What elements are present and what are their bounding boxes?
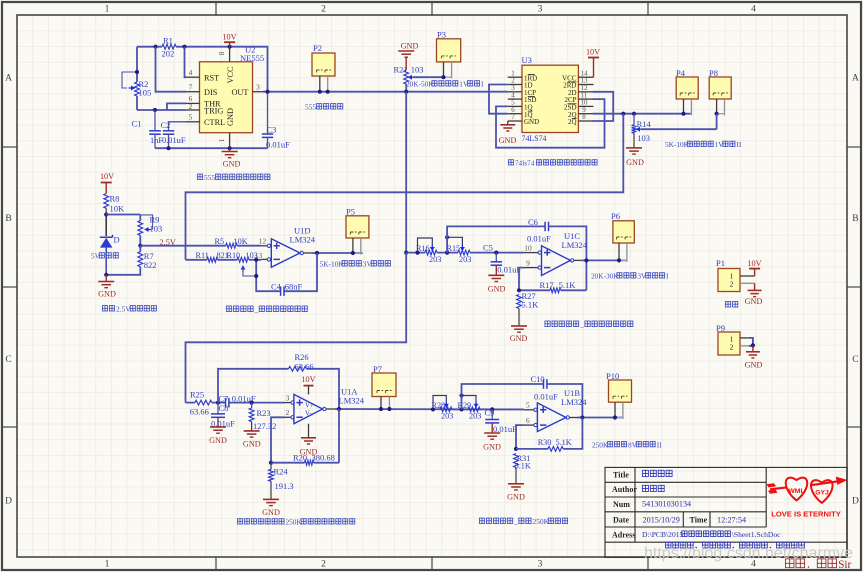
junction VCC pin8 [228,45,232,49]
svg-text:P2: P2 [313,43,322,53]
capacitor C4 integrator feedback [284,253,317,291]
wire pin9 to R17 [519,268,524,291]
svg-text:1: 1 [105,5,110,15]
U1B pin 5 [524,409,534,411]
caption integrator [226,306,231,312]
svg-text:191.3: 191.3 [275,481,294,491]
svg-text:LM324: LM324 [339,396,365,406]
svg-text:103: 103 [411,64,424,74]
resistor R11 [207,257,218,262]
wire R26-R20 vertical [338,409,340,463]
svg-text:GND: GND [507,493,525,502]
ground (C9) [484,432,500,434]
svg-text:GND: GND [209,436,227,445]
junction OUT/R21 [404,90,408,94]
svg-text:0.01uF: 0.01uF [497,265,521,275]
svg-text:203: 203 [459,255,471,264]
wire top rail right (VCC node) [176,47,268,92]
svg-text:_: _ [579,320,584,329]
junction R25/C7/C8/R26 [216,401,220,405]
svg-text:D:\PCB\2015: D:\PCB\2015 [642,530,684,539]
svg-text:II: II [736,140,741,149]
svg-text:203: 203 [469,412,481,421]
U2 pin 7 DIS [186,91,200,93]
svg-text:203: 203 [441,412,453,421]
svg-text:0.01uF: 0.01uF [266,140,290,150]
svg-text:203: 203 [429,255,441,264]
svg-text:Title: Title [613,471,629,480]
svg-text:U3: U3 [522,55,532,65]
U1B output pin 7 [566,416,569,419]
svg-text:LM324: LM324 [290,235,316,245]
resistor R17 [519,289,550,291]
timer U2 body [200,62,253,133]
ground (555) [229,148,231,151]
potentiometer R10 [237,257,249,262]
svg-text:250K: 250K [533,517,550,526]
wire inverting input row [186,259,208,261]
capacitor C8 [217,403,219,414]
op-amp U1A [294,394,323,423]
U3 pin 11 2CP [578,98,593,100]
svg-text:3: 3 [538,560,543,570]
svg-text:202: 202 [162,49,175,59]
ground (R31) [508,483,524,485]
title block table [605,467,847,557]
svg-text:2: 2 [189,102,193,111]
svg-text:V-: V- [305,411,312,418]
svg-text:C2: C2 [161,120,171,130]
svg-text:D: D [114,235,120,245]
ground (C5) [488,274,504,276]
U1A pin 2 [285,416,292,418]
svg-text:10V: 10V [586,48,600,57]
power 10V (U1A V+) [308,386,310,395]
wire 555 bottom rail [155,147,268,149]
svg-text:10: 10 [524,243,532,252]
capacitor C7 [225,398,227,408]
svg-text:GYJ: GYJ [815,490,829,497]
flip-flop U3 body [522,65,578,132]
resistor R1 [162,44,176,49]
svg-text:A: A [852,74,859,84]
svg-text:7: 7 [511,113,515,121]
svg-text:Author: Author [612,485,637,494]
junction output/C10/R30 [580,415,584,419]
svg-text:10K: 10K [110,204,126,214]
svg-text:WML: WML [788,488,804,495]
svg-text:8: 8 [218,51,226,55]
svg-text:C3: C3 [267,125,277,135]
potentiometer R21 [404,70,409,84]
svg-text:2: 2 [321,5,326,15]
svg-text:Date: Date [613,515,629,524]
U2 pin 8 VCC [229,47,231,62]
caption LP filter [545,321,550,327]
svg-text:D: D [5,497,12,507]
wire 555 OUT row [263,91,508,93]
svg-text:541301030134: 541301030134 [642,500,691,509]
svg-text:VCC: VCC [226,66,235,84]
svg-text:GND: GND [262,508,280,517]
svg-text:0.01uF: 0.01uF [527,234,551,244]
junction R23 tap [250,401,254,405]
resistor R25 [195,400,212,405]
junction C6 tap [445,251,449,255]
U3 pin 3 1CP [508,91,522,93]
wire bandpass input row [186,402,195,404]
svg-text:P3: P3 [437,30,446,40]
potentiometer R16 [425,250,437,255]
svg-text:RST: RST [204,73,219,82]
credit text [785,559,794,568]
svg-text:R17: R17 [540,280,554,290]
potentiometer R14 [633,114,635,125]
svg-text:1: 1 [218,138,226,142]
svg-text:GND: GND [745,297,763,306]
junction output/C6/R17 [584,258,588,262]
svg-text:2: 2 [730,342,734,351]
svg-text:822: 822 [144,260,157,270]
wire 2D-2Qbar wrap [593,92,614,121]
wire U1B input row [452,408,468,410]
wire square to bandpass [186,253,407,403]
svg-text:LM324: LM324 [561,397,587,407]
junction R20/R24 [269,461,273,465]
svg-text:GND: GND [510,334,528,343]
ground (R23) [244,430,260,432]
svg-text:GND: GND [524,118,539,126]
title block note [665,542,671,548]
svg-text:20K-50K: 20K-50K [406,80,434,89]
svg-text:2: 2 [286,408,290,417]
svg-text:R1: R1 [163,36,173,46]
capacitor C9 [491,409,493,419]
ground (P1) [754,283,756,290]
junction output/C4 [315,251,319,255]
wire RST vertical [185,47,187,77]
junction OUT/C3 [265,90,269,94]
svg-text:Num: Num [613,500,630,509]
svg-text:R28: R28 [432,401,446,410]
svg-text:GND: GND [483,443,501,452]
svg-text:C: C [852,355,858,365]
op-amp U1B [537,403,566,432]
svg-text:LM324: LM324 [562,240,588,250]
svg-text:6: 6 [526,416,530,425]
svg-text:Time: Time [690,515,708,524]
svg-text:GND: GND [499,136,517,145]
U3 pin 6 1Q [508,113,522,115]
svg-text:105: 105 [139,88,152,98]
potentiometer R9 [139,215,141,221]
svg-text:C4: C4 [271,281,282,291]
svg-text:\Sheet1.SchDoc: \Sheet1.SchDoc [732,530,781,539]
svg-text:GND: GND [626,158,644,167]
svg-text:A: A [5,74,12,84]
wire 2Q output row [593,113,691,115]
svg-text:R10: R10 [227,251,241,260]
U3 pin 7 GND [508,120,522,122]
svg-text:5K-10K: 5K-10K [320,260,345,269]
resistor R31 [514,454,519,468]
svg-text:NE555: NE555 [240,53,264,63]
svg-text:3: 3 [538,5,543,15]
svg-text:74ls74: 74ls74 [515,159,535,168]
caption 555 oscillator [197,174,202,179]
U3 pin 1 1RD [508,76,522,78]
resistor R30 [516,448,548,450]
svg-text:1: 1 [105,560,110,570]
logo heart GYJ [811,480,832,503]
svg-text:68nF: 68nF [285,281,303,291]
svg-text:R23: R23 [257,408,271,418]
U2 pin 2 TRIG [186,109,200,111]
svg-text:R5: R5 [215,237,225,246]
svg-text:12: 12 [259,237,267,246]
svg-text:R16: R16 [416,244,430,253]
svg-text:20K-30K: 20K-30K [591,272,619,281]
U3 pin 10 2SD [578,105,593,107]
potentiometer R29 [468,407,480,412]
diode D zener [100,235,113,238]
wire divided-output feedback to integrator [186,114,624,260]
ground (C8) [210,426,226,428]
svg-text:3: 3 [286,393,290,402]
svg-text:10V: 10V [747,259,761,268]
svg-text:5K-10K: 5K-10K [665,140,690,149]
junction diode bottom [104,273,108,277]
svg-text:GND: GND [488,285,506,294]
svg-text:0.01uF: 0.01uF [534,392,558,402]
ground (R27) [511,325,527,327]
wire DIS vertical [156,47,187,92]
caption 2.5V reference [102,306,107,311]
svg-text:5.1K: 5.1K [559,280,577,290]
resistor R8 [104,194,109,209]
svg-text:C8: C8 [219,403,229,413]
svg-text:5.1K: 5.1K [515,462,531,471]
logo arrow head [810,481,838,485]
wire THR step [167,103,186,110]
svg-text:P6: P6 [611,211,620,221]
junction 2.5V [138,244,142,248]
svg-text:OUT: OUT [231,88,248,97]
svg-text:P5: P5 [346,207,355,217]
svg-text:5.1K: 5.1K [556,438,572,447]
junction C9 tap [490,407,494,411]
U2 pin 1 GND [229,133,231,149]
capacitor C6 feedback [447,226,545,252]
svg-text:12:27:54: 12:27:54 [717,515,746,524]
junction on DIS rail [153,45,157,49]
wire pin2 down [271,417,285,462]
svg-text:5: 5 [189,113,193,122]
junction square to LP [404,251,408,255]
svg-text:63.66: 63.66 [190,407,209,417]
wire TRIG row [137,109,186,111]
resistor R24 [270,463,272,470]
U3 pin 14 VCC [578,76,593,78]
svg-text:103: 103 [637,133,650,143]
svg-text:555: 555 [305,103,316,112]
svg-text:C1: C1 [132,119,142,129]
svg-text:2: 2 [321,560,326,570]
ground (R14) [626,147,642,149]
wire LP input row [406,252,425,254]
svg-text:10V: 10V [301,375,315,384]
svg-text:380.68: 380.68 [312,452,335,462]
resistor R23 [251,403,253,408]
U2 pin 3 OUT [253,91,264,93]
junction OUT vertical to filters [405,92,407,253]
svg-text:P1: P1 [716,258,725,268]
wire top rail left (DIS node) [137,46,162,48]
svg-text:Sir: Sir [838,559,851,571]
svg-text:R24: R24 [274,467,289,477]
U1D pin 13 [261,258,267,260]
junction R30/R31 [514,447,518,451]
svg-text:5.1K: 5.1K [522,300,540,310]
svg-text:4: 4 [189,69,193,77]
junction C10 tap [459,407,463,411]
svg-text:10V: 10V [100,172,114,181]
svg-text:R21: R21 [394,64,408,74]
svg-text:5: 5 [526,401,530,410]
U3 pin 13 2RD [578,84,593,86]
U3 pin 4 1SD [508,98,522,100]
resistor R5 [226,243,237,248]
svg-text:2015/10/29: 2015/10/29 [643,515,680,524]
op-amp U1C [542,246,571,276]
caption bandpass [237,519,242,524]
svg-text:74LS74: 74LS74 [522,134,547,143]
U1A pin 3 [285,402,292,404]
svg-text:R11: R11 [196,251,209,260]
svg-text:DIS: DIS [204,88,218,97]
U2 pin 6 THR [186,102,200,104]
svg-text:2Q: 2Q [568,118,577,126]
svg-text:R29: R29 [458,401,472,410]
svg-text:R14: R14 [637,119,652,129]
svg-text:C9: C9 [485,408,495,418]
svg-text:R30: R30 [538,438,552,447]
logo heart WML [786,478,807,501]
capacitor C10 feedback [462,384,544,409]
U3 pin 9 2Q [578,113,593,115]
U2 pin 4 RST [186,76,200,78]
junction 2Q feedback [621,112,625,116]
U1D output pin 14 [300,251,303,254]
junction output/R26/R20 [337,407,341,411]
U3 pin 12 2D [578,91,593,93]
svg-text:Adress: Adress [612,531,635,540]
wire 1D-1Qbar wrap [489,85,508,114]
svg-text:9: 9 [526,258,530,267]
svg-text:C5: C5 [483,243,493,253]
svg-text:R20: R20 [293,452,307,462]
resistor R27 [517,295,522,309]
potentiometer R15 [458,250,470,255]
svg-text:GND: GND [243,440,261,449]
svg-text:250K: 250K [592,440,609,449]
ground (R24) [263,498,279,500]
svg-text:250K: 250K [286,518,303,527]
junction RST branch [182,45,186,49]
potentiometer R28 [440,407,452,412]
svg-text:3: 3 [256,83,260,92]
svg-text:7: 7 [189,84,193,92]
svg-text:C6: C6 [528,217,538,227]
junction C5 tap [494,251,498,255]
resistor R20 feedback [271,462,305,464]
ground (P9) [752,346,754,352]
junction C1 top [153,108,157,112]
capacitor C3 [267,92,269,134]
svg-text:B: B [5,214,11,224]
svg-text:103: 103 [150,224,163,234]
svg-text:LOVE IS ETERNITY: LOVE IS ETERNITY [771,510,841,519]
svg-text:127.32: 127.32 [253,421,276,431]
svg-text:GND: GND [223,160,241,169]
U3 pin 8 2Q [578,120,593,122]
svg-text:555: 555 [204,173,215,182]
svg-text:II: II [657,440,662,449]
svg-text:10K: 10K [234,237,248,246]
svg-text:CTRL: CTRL [204,118,225,127]
wire ref node [105,215,107,237]
ground (U1A V-) [308,424,310,438]
U1C pin 10 [524,252,538,254]
svg-text:C: C [5,355,11,365]
svg-text:GND: GND [401,42,419,51]
svg-text:C10: C10 [531,374,545,384]
svg-text:TRIG: TRIG [204,107,223,116]
U1D pin 12 [261,245,267,247]
svg-text:GND: GND [226,108,235,126]
wire 1Q-2CP wrap [496,99,605,148]
svg-text:8: 8 [582,113,586,121]
svg-text:GND: GND [745,361,763,370]
resistor R26 feedback [218,369,289,403]
capacitor C5 [495,253,497,262]
U1A output pin 1 [323,407,326,410]
svg-text:2: 2 [730,280,734,289]
svg-text:10V: 10V [222,33,236,42]
svg-text:_: _ [254,305,259,314]
U1B pin 6 [524,424,534,426]
U1C pin 9 [524,267,538,269]
svg-text:GND: GND [98,290,116,299]
op-amp U1D [271,239,300,267]
svg-text:R25: R25 [190,390,204,400]
U1C output pin 8 [570,259,573,262]
U3 pin 2 1D [508,84,522,86]
svg-text:B: B [852,214,858,224]
svg-text:63.66: 63.66 [295,362,314,372]
wire pin6 to R30 [516,425,524,449]
junction R17/R27 [517,288,521,292]
caption divide-by-four [508,160,513,165]
svg-text:0.01uF: 0.01uF [162,136,186,145]
svg-text:D: D [852,497,859,507]
svg-text:V+: V+ [305,403,314,410]
title block values [642,470,648,476]
resistor R7 [139,246,141,252]
caption LP filter 250K [479,518,484,523]
svg-text:R26: R26 [295,352,309,362]
ground (reference) [105,275,107,282]
